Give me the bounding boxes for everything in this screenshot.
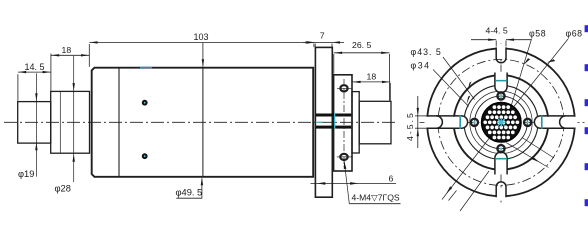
circle phi34	[464, 85, 538, 159]
dimension 26.5	[334, 53, 390, 101]
svg-text:7: 7	[320, 31, 325, 41]
body seam line	[118, 68, 120, 176]
svg-text:4-M4▽7ΓQS: 4-M4▽7ΓQS	[352, 192, 400, 202]
svg-text:φ68: φ68	[566, 29, 583, 39]
small hole E	[524, 119, 531, 126]
cyan centerline segment at flange	[316, 122, 323, 123]
step phi28	[51, 91, 90, 153]
blue grip squares	[585, 25, 588, 206]
leader extensions bottom-right	[506, 143, 549, 168]
motor body phi49.5	[92, 68, 314, 177]
leader extensions bottom-left	[442, 139, 489, 200]
slot W (5.5 wide) + channel W	[425, 115, 468, 129]
small hole N	[497, 92, 504, 99]
slot E + channel E	[534, 115, 577, 129]
boss plate phi43.5	[334, 75, 352, 171]
dimension 7 (flange)	[303, 42, 344, 47]
cyan highlight on body top edge	[140, 67, 152, 68]
dimension 18 rear	[352, 82, 390, 101]
circle phi29	[470, 91, 532, 153]
svg-text:103: 103	[194, 32, 209, 42]
svg-text:14. 5: 14. 5	[25, 62, 45, 72]
leader arrow into phi28	[73, 56, 75, 182]
M4 hole lower (side view)	[340, 154, 347, 160]
slot S	[496, 182, 507, 201]
svg-text:φ49. 5: φ49. 5	[176, 188, 203, 198]
dimension 103	[89, 42, 314, 66]
svg-text:4-5.5: 4-5.5	[405, 111, 415, 141]
front view horizontal centerline	[420, 121, 586, 123]
leader arrow into phi19	[35, 73, 37, 176]
channel S through rings	[495, 152, 507, 175]
set screw upper	[142, 100, 148, 106]
bolt hole centerline vertical	[343, 79, 345, 167]
M4 hole upper (side view)	[340, 85, 347, 91]
small hole W	[471, 119, 478, 126]
front shaft phi19	[18, 102, 51, 144]
outer circle phi68	[427, 48, 575, 196]
set screw lower	[142, 153, 148, 159]
small hole S	[497, 145, 504, 152]
svg-text:6: 6	[389, 173, 394, 183]
svg-text:18: 18	[62, 45, 72, 55]
channel N through rings	[495, 72, 507, 93]
svg-text:26. 5: 26. 5	[352, 40, 371, 50]
connector bars in flange	[316, 114, 352, 117]
svg-text:φ19: φ19	[18, 169, 34, 179]
connector disc with pins	[482, 103, 522, 143]
dimension 18 front	[51, 44, 89, 67]
bolt circle phi58 dash-dot	[438, 59, 564, 185]
circle phi43.5	[454, 75, 549, 170]
front view vertical centerline	[500, 44, 502, 203]
dimension 6	[311, 182, 397, 184]
rear step phi28	[352, 92, 359, 153]
dimension 4-4.5	[471, 40, 531, 47]
connector pilot circle	[475, 96, 528, 149]
svg-text:4-4. 5: 4-4. 5	[486, 26, 508, 36]
dimension 4-5.5 (rotated)	[415, 96, 427, 148]
svg-text:φ28: φ28	[55, 184, 71, 194]
svg-text:φ58: φ58	[529, 29, 546, 39]
dimension 14.5	[18, 54, 51, 101]
slot N (4.5 wide)	[496, 44, 507, 63]
centerline main axis	[4, 121, 397, 123]
svg-text:φ43. 5: φ43. 5	[411, 47, 442, 57]
rear shaft phi19	[359, 101, 391, 144]
cyan center mark	[497, 118, 506, 127]
flange plate phi68	[315, 47, 332, 197]
svg-text:18: 18	[367, 72, 377, 82]
svg-text:φ34: φ34	[411, 61, 431, 71]
